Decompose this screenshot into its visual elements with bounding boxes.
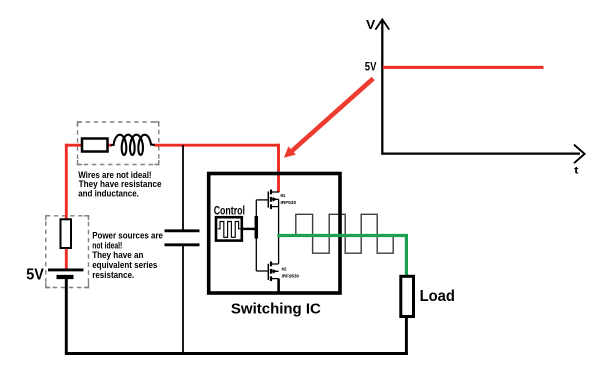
svg-text:Load: Load [420, 288, 455, 305]
resistor (wire resistance) [82, 139, 108, 152]
svg-text:They have an: They have an [92, 250, 144, 260]
wire (red: top run, corner to wire-model resistor) [65, 144, 112, 147]
graph X axis (t) [382, 145, 584, 164]
svg-text:and inductance.: and inductance. [78, 188, 139, 198]
svg-text:5V: 5V [365, 61, 377, 73]
wire (bottom ground rail) [65, 352, 408, 355]
svg-text:equivalent series: equivalent series [92, 260, 157, 270]
label M1 IRF530 [281, 193, 297, 205]
battery B1 5V [48, 270, 84, 277]
dashed annotation box (power source ESR) [46, 216, 89, 288]
wire (gate bus vertical, M1 gate to M2 gate) [255, 200, 257, 271]
label M2 IRF9530 [282, 267, 300, 279]
svg-text:V: V [366, 17, 376, 32]
svg-text:Switching IC: Switching IC [231, 300, 321, 317]
svg-text:Power sources are: Power sources are [92, 231, 163, 241]
dashed annotation box (non-ideal wire) [78, 122, 159, 165]
wire (green output to load) [277, 236, 406, 278]
svg-text:IRF530: IRF530 [281, 200, 297, 205]
wire (control output lead) [242, 228, 257, 230]
capacitor C (decoupling) [165, 231, 200, 245]
wire (red: down to M1 drain) [277, 144, 280, 192]
resistor (battery ESR) [61, 219, 72, 248]
square wave signal overlay [296, 214, 393, 253]
wire (capacitor branch, bottom segment) [182, 245, 184, 353]
transistor M1 (IRF530 NMOS) [256, 190, 279, 237]
wire (red: battery + up left side) [65, 144, 68, 270]
svg-text:IRF9530: IRF9530 [282, 274, 300, 279]
wire (red: inductor to IC corner) [154, 144, 280, 147]
transistor M2 (IRF9530 PMOS) [256, 235, 278, 293]
svg-text:Control: Control [214, 204, 245, 217]
control block [216, 217, 242, 240]
note: wires are not ideal [78, 170, 161, 199]
wire (capacitor branch, top segment) [182, 145, 184, 230]
svg-text:not ideal!: not ideal! [92, 240, 122, 250]
graph 5V red trace [383, 66, 544, 69]
inductor (wire inductance) [111, 135, 155, 155]
annotation red arrow to graph [284, 79, 373, 158]
svg-text:M1: M1 [281, 193, 286, 198]
svg-text:resistance.: resistance. [92, 270, 134, 280]
junction (control output on gate bus) [255, 216, 259, 239]
wire (battery - down to ground rail) [65, 276, 68, 354]
resistor load [401, 276, 414, 316]
switching IC box U1 [209, 174, 340, 294]
svg-text:t: t [574, 166, 579, 177]
wire (load bottom to ground rail) [405, 316, 408, 355]
svg-text:5V: 5V [26, 266, 44, 283]
note: power sources not ideal [92, 231, 163, 280]
graph Y axis (V) [375, 19, 389, 154]
svg-text:M2: M2 [282, 267, 287, 272]
